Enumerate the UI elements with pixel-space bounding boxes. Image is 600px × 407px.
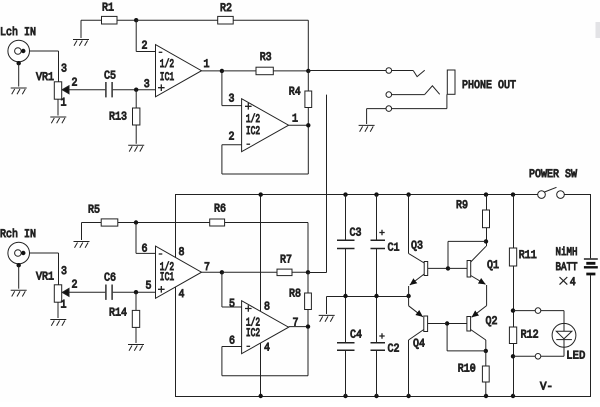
- IC2a inverting sign: [247, 143, 251, 145]
- op-amp IC2a: [242, 99, 289, 152]
- wire plug sleeve up: [446, 94, 448, 108]
- IC2a non-inverting sign: [245, 103, 252, 110]
- wire feedback bottom (b): [222, 375, 308, 377]
- IC1b inverting input sign: [159, 253, 163, 255]
- resistor R11: [509, 248, 516, 266]
- svg-text:VR1: VR1: [36, 71, 54, 84]
- potentiometer VR1 (Lch) body: [54, 82, 61, 99]
- wire into pin 2: [136, 51, 155, 53]
- wire VR1 bottom: [57, 99, 59, 115]
- svg-text:R14: R14: [109, 307, 127, 320]
- node A (Lch out sum): [306, 69, 310, 73]
- svg-text:R2: R2: [220, 2, 232, 15]
- LED connector pin 1: [535, 308, 541, 314]
- resistor R2: [218, 16, 234, 24]
- wire feedback bottom: [222, 173, 308, 175]
- wire to LED connector 1: [513, 310, 535, 312]
- Q1 collector diagonal: [471, 246, 486, 262]
- svg-text:R4: R4: [289, 86, 301, 99]
- switch pole: [538, 191, 546, 199]
- IC2b inverting sign: [247, 345, 251, 347]
- svg-text:1/2: 1/2: [160, 58, 174, 71]
- wire IC2a output: [289, 124, 309, 126]
- svg-text:3: 3: [144, 78, 150, 91]
- junction V+ rail R9: [484, 192, 488, 196]
- wire base network down: [447, 241, 449, 268]
- svg-text:C5: C5: [104, 69, 116, 82]
- terminal sleeve: [386, 106, 392, 112]
- wire R2 down to node A: [307, 20, 309, 71]
- Q3 base wire: [428, 267, 448, 269]
- junction V- rail IC2b: [259, 394, 263, 398]
- wire feedback up to out: [307, 125, 309, 174]
- svg-text:2: 2: [72, 278, 78, 291]
- svg-text:7: 7: [293, 316, 299, 329]
- svg-text:VR1: VR1: [36, 270, 54, 283]
- wire ring riser: [326, 95, 328, 273]
- wire node A to tip terminal: [308, 70, 386, 72]
- junction R1/R2/pin2: [134, 18, 138, 22]
- svg-text:R10: R10: [458, 363, 476, 376]
- wire R2 feedback: [136, 19, 308, 21]
- junction C6/R14: [134, 290, 138, 294]
- transistor Q2 base bar: [467, 317, 471, 332]
- junction vg C3: [343, 294, 347, 298]
- junction Q3/Q1 bases: [446, 266, 450, 270]
- svg-text:2: 2: [229, 131, 235, 144]
- Q2 collector diagonal: [471, 330, 486, 341]
- capacitor C1: [371, 240, 386, 248]
- wire node B to IC2b out: [307, 272, 309, 326]
- wire base network bottom: [447, 350, 486, 352]
- Q4 collector drop: [408, 340, 410, 397]
- svg-text:Q1: Q1: [487, 259, 499, 272]
- IC1b non-inverting input sign: [158, 286, 165, 293]
- resistor R12: [509, 327, 516, 344]
- svg-text:C1: C1: [388, 241, 400, 254]
- VR1 Rch wiper arrow: [62, 288, 69, 296]
- junction V+ rail C1: [374, 192, 378, 196]
- svg-text:1: 1: [292, 113, 298, 126]
- wire pin6 stub: [222, 346, 242, 348]
- switch throw: [557, 191, 565, 199]
- R10 branch: [485, 351, 487, 397]
- svg-text:BATT: BATT: [556, 261, 578, 274]
- wire node to IC1a pin2: [135, 20, 137, 51]
- resistor R8: [305, 293, 312, 310]
- junction C5/R13: [134, 88, 138, 92]
- junction V- rail C4: [343, 394, 347, 398]
- wire C6 to IC1b pin5: [113, 291, 156, 293]
- svg-text:R6: R6: [214, 202, 226, 215]
- ring break contact: [425, 86, 440, 95]
- svg-text:IC2: IC2: [246, 327, 260, 340]
- wire J2 to VR1 top (Rch): [30, 252, 59, 254]
- wire feedback up to out (b): [307, 327, 309, 376]
- resistor R7: [277, 269, 292, 276]
- svg-text:8: 8: [179, 246, 185, 259]
- svg-text:R11: R11: [519, 249, 537, 262]
- wire pin2 stub: [222, 144, 242, 146]
- Q1-Q2 emitter tie: [486, 285, 488, 306]
- R9 branch: [486, 195, 488, 247]
- Q3 collector riser: [408, 195, 410, 254]
- junction V+ rail Q3: [406, 192, 410, 196]
- svg-text:PHONE OUT: PHONE OUT: [462, 79, 516, 92]
- junction vg C1: [374, 294, 378, 298]
- svg-text:V-: V-: [540, 380, 553, 393]
- svg-text:3: 3: [229, 93, 235, 106]
- junction V+ rail IC2b: [259, 192, 263, 196]
- svg-text:IC2: IC2: [246, 125, 260, 138]
- junction V- rail R12: [511, 394, 515, 398]
- ground at Rch input: [11, 290, 27, 296]
- junction LED cathode tap: [511, 354, 515, 358]
- junction IC1b out: [220, 270, 224, 274]
- wire R6 down to node B: [307, 223, 309, 273]
- svg-text:R7: R7: [280, 253, 292, 266]
- capacitor C6: [106, 285, 112, 300]
- VR1 Lch wiper arrow: [62, 86, 69, 94]
- ground at R5: [74, 242, 90, 248]
- wire out to node A via R3: [222, 70, 308, 72]
- junction V- rail Q4: [406, 394, 410, 398]
- power supply box / V+ V- rails: [176, 195, 591, 397]
- battery BT1 NiMH x4: [584, 259, 598, 274]
- resistor R13: [133, 108, 140, 125]
- wire R1 to pin2 node: [117, 19, 136, 21]
- LED connector pin 2: [535, 354, 541, 360]
- svg-text:4: 4: [179, 288, 185, 301]
- wire into pin 5 IC2b: [222, 306, 242, 308]
- op-amp IC1a: [156, 45, 202, 97]
- RCA jack Rch IN J2: [8, 242, 30, 264]
- junction V- rail R10: [484, 394, 488, 398]
- wire J1 shell to ground: [18, 63, 20, 86]
- svg-text:POWER SW: POWER SW: [529, 168, 577, 181]
- svg-text:Lch IN: Lch IN: [0, 26, 36, 39]
- ground under R13: [128, 145, 144, 151]
- ground under R14: [128, 345, 144, 351]
- wire IC1a output: [202, 70, 222, 72]
- wire C3/C4 branch: [345, 195, 347, 397]
- wire down from R1 left: [80, 20, 82, 38]
- wire IC1b out down to IC2b pin5: [221, 272, 223, 307]
- svg-text:6: 6: [142, 242, 148, 255]
- wire tip to switch contact: [392, 70, 414, 72]
- svg-text:5: 5: [229, 297, 235, 310]
- ground at R1: [73, 40, 89, 46]
- Q2 base wire: [447, 323, 467, 325]
- op-amp IC2b: [242, 301, 289, 354]
- svg-text:1: 1: [61, 299, 67, 312]
- IC1a non-inverting input sign: [158, 84, 165, 91]
- LED D1: [552, 323, 576, 347]
- junction IC1a out: [220, 69, 224, 73]
- svg-text:R1: R1: [102, 2, 114, 15]
- svg-text:1: 1: [204, 58, 210, 71]
- ground at Lch input: [11, 88, 27, 94]
- C2 polarity mark: [379, 333, 384, 338]
- wire VR1 Rch bottom: [57, 302, 59, 318]
- wire R5-R6 feedback run: [117, 222, 308, 224]
- svg-text:NiMH: NiMH: [556, 246, 578, 259]
- svg-text:Rch IN: Rch IN: [0, 228, 36, 241]
- wire down from R5 left: [81, 223, 83, 241]
- svg-text:Q2: Q2: [486, 315, 498, 328]
- tip break contact: [413, 70, 425, 76]
- phone plug body: [447, 70, 455, 94]
- C1 polarity mark: [379, 230, 384, 235]
- svg-text:R12: R12: [521, 329, 539, 342]
- junction J1 ground: [17, 61, 21, 65]
- resistor R14: [132, 310, 139, 327]
- junction V- rail C2: [374, 394, 378, 398]
- transistor Q3 base bar: [424, 262, 428, 276]
- wire IC1a out down to IC2a pin3: [221, 71, 223, 106]
- Q4 emitter arrow: [409, 306, 423, 317]
- capacitor C4: [337, 343, 355, 351]
- svg-text:C6: C6: [104, 271, 116, 284]
- svg-text:R13: R13: [109, 110, 127, 123]
- svg-text:3: 3: [61, 62, 67, 75]
- wire to LED connector 2: [513, 355, 535, 357]
- Q2 collector drop: [485, 340, 487, 351]
- wire base network top: [448, 240, 486, 242]
- junction vg Q3/Q4 emitters: [406, 294, 410, 298]
- R11-R12 branch: [513, 195, 515, 397]
- svg-text:IC1: IC1: [160, 71, 174, 84]
- junction V+ rail C3: [343, 192, 347, 196]
- ground at phone jack: [359, 125, 375, 131]
- junction R5/R6/pin6: [134, 220, 138, 224]
- Q3 emitter arrow: [410, 274, 424, 285]
- faint edge artifact: [596, 22, 600, 38]
- svg-text:C4: C4: [350, 328, 362, 341]
- svg-text:4: 4: [264, 342, 270, 355]
- svg-text:C3: C3: [350, 226, 362, 239]
- wire C5 to IC1 pin3: [113, 89, 156, 91]
- Q4 base wire: [428, 323, 448, 325]
- svg-text:2: 2: [72, 76, 78, 89]
- junction LED anode tap: [511, 308, 515, 312]
- wire R14 to ground: [135, 327, 137, 343]
- svg-text:LED: LED: [566, 350, 585, 363]
- Q3 emitter to vg: [408, 286, 410, 296]
- terminal ring: [386, 92, 392, 98]
- wire node to IC1b pin6: [135, 223, 137, 254]
- node B (Rch out sum): [306, 270, 310, 274]
- ground at virtual rail: [319, 315, 335, 321]
- ground under VR1 Rch: [50, 320, 66, 326]
- wire ground to R1: [81, 19, 102, 21]
- resistor R5: [101, 219, 118, 226]
- wire into pin 3 IC2a: [222, 105, 242, 107]
- junction IC2b out/R8: [306, 324, 310, 328]
- wire VR1 Rch wiper to C6: [69, 291, 105, 293]
- capacitor C2: [371, 343, 386, 351]
- junction Q4/Q2 bases: [445, 321, 449, 325]
- wire node B to ring: [308, 272, 327, 274]
- RCA jack Lch IN J1: [8, 40, 30, 62]
- svg-text:R9: R9: [456, 199, 468, 212]
- capacitor C3: [337, 240, 355, 248]
- resistor R10: [482, 366, 489, 382]
- resistor R4: [305, 91, 312, 108]
- wire pin2 down: [221, 145, 223, 174]
- wire down to ground: [366, 109, 368, 124]
- junction V+ rail R11: [511, 192, 515, 196]
- wire down to VR1 Rch pin3: [58, 253, 60, 285]
- wire C1/C2 branch: [376, 195, 378, 397]
- switch lever: [545, 187, 557, 192]
- wire ring to switch contact: [392, 94, 425, 96]
- wire pin6 down: [221, 347, 223, 376]
- wire sleeve to ground stub: [367, 108, 386, 110]
- wire node A to IC2a out: [307, 71, 309, 125]
- wire vg to ground: [326, 297, 328, 315]
- resistor R1: [102, 16, 118, 24]
- wire LED connector to anode: [541, 310, 564, 312]
- svg-text:8: 8: [264, 300, 270, 313]
- wire ground to R5: [82, 222, 102, 224]
- svg-text:2: 2: [142, 39, 148, 52]
- svg-text:4: 4: [570, 276, 576, 289]
- wire LED connector 2 to cathode: [541, 355, 564, 357]
- svg-text:R5: R5: [88, 204, 100, 217]
- junction Q2 collector/R10: [484, 349, 488, 353]
- label x4 cross: [560, 277, 568, 285]
- wire out to node B via R7: [222, 271, 308, 273]
- wire down to VR1 pin3: [58, 51, 60, 82]
- wire base network up (bottom): [446, 324, 448, 351]
- wire VR1 wiper to C5: [69, 89, 105, 91]
- wire J2 shell to ground: [18, 265, 20, 289]
- IC1a inverting input sign: [159, 51, 163, 53]
- Q1 emitter arrow: [471, 276, 486, 285]
- svg-text:IC1: IC1: [160, 271, 174, 284]
- resistor R9: [483, 210, 490, 228]
- svg-text:R3: R3: [260, 51, 272, 64]
- Q1 base wire: [448, 267, 467, 269]
- svg-text:Q4: Q4: [413, 337, 425, 350]
- junction IC2a out/R4: [306, 123, 310, 127]
- ground under VR1 Lch: [50, 117, 66, 123]
- terminal tip: [386, 68, 392, 74]
- wire J1 to VR1 top: [30, 50, 59, 52]
- wire virtual ground rail: [327, 296, 409, 298]
- wire into pin 6: [136, 252, 156, 254]
- switch gap: [542, 193, 561, 197]
- Q4 emitter from vg: [408, 296, 410, 306]
- IC2b non-inverting sign: [245, 305, 252, 312]
- wire down to R13: [135, 90, 137, 108]
- svg-text:R8: R8: [289, 287, 301, 300]
- wire gap for battery: [585, 258, 595, 275]
- Q3 collector diagonal: [409, 254, 425, 264]
- resistor R6: [210, 219, 225, 226]
- resistor R3: [256, 67, 273, 75]
- Q2 emitter arrow: [472, 306, 487, 318]
- svg-text:5: 5: [146, 280, 152, 293]
- svg-text:1: 1: [61, 97, 67, 110]
- capacitor C5: [106, 82, 112, 97]
- junction R9/base network: [484, 239, 488, 243]
- svg-text:C2: C2: [388, 342, 400, 355]
- transistor Q1 base bar: [467, 261, 471, 278]
- wire IC2b output: [289, 326, 308, 328]
- wire sleeve to plug: [392, 108, 447, 110]
- junction J2 ground: [17, 263, 21, 267]
- potentiometer VR1 (Rch) body: [54, 285, 61, 302]
- wire R13 to ground: [135, 125, 137, 144]
- svg-text:Q3: Q3: [411, 239, 423, 252]
- svg-text:6: 6: [229, 335, 235, 348]
- svg-text:3: 3: [61, 265, 67, 278]
- wire IC1b output: [202, 271, 222, 273]
- op-amp IC1b: [156, 246, 202, 298]
- wire down to R14: [135, 292, 137, 310]
- Q4 collector diagonal: [409, 330, 424, 341]
- LED anode drop: [563, 311, 565, 324]
- wire IC2b supply pins: [260, 195, 262, 397]
- transistor Q4 base bar: [424, 316, 428, 332]
- LED cathode drop: [563, 347, 565, 356]
